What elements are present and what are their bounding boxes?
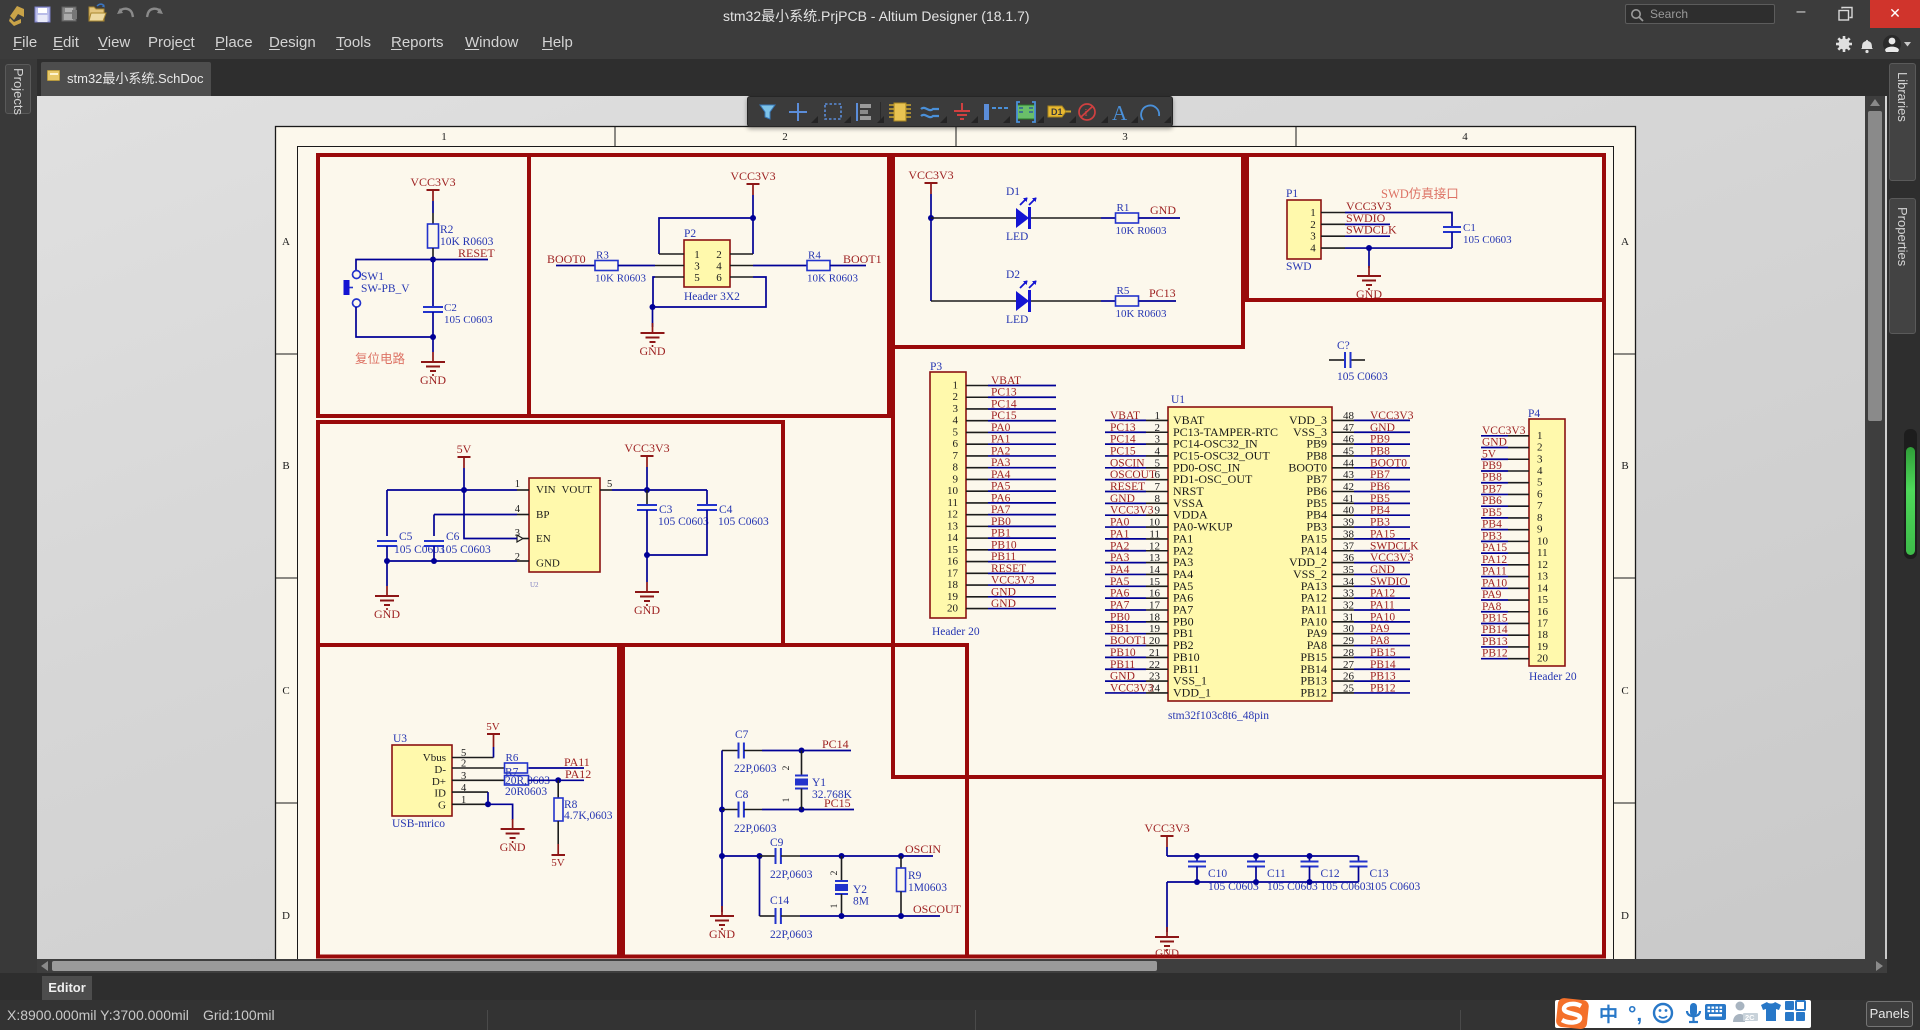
pin U1.15 PA5 — [1146, 585, 1168, 587]
svg-text:105 C0603: 105 C0603 — [658, 516, 709, 528]
wire net 5V — [1481, 458, 1508, 460]
svg-text:PB0: PB0 — [991, 516, 1011, 528]
wire net PB10 — [1105, 656, 1146, 658]
pin U1.32 PA11 — [1332, 609, 1354, 611]
wire — [752, 195, 754, 218]
svg-text:GND: GND — [1155, 948, 1179, 960]
svg-text:4.7K,0603: 4.7K,0603 — [564, 810, 613, 822]
svg-text:C14: C14 — [770, 895, 789, 907]
wire net VBAT — [1105, 419, 1146, 421]
wire net PB11 — [988, 561, 1056, 563]
svg-text:R2: R2 — [440, 224, 454, 236]
junction — [799, 807, 805, 813]
wire net GND — [1481, 447, 1508, 449]
pin P3.15 — [966, 549, 988, 551]
svg-text:C10: C10 — [1208, 868, 1227, 880]
svg-text:RESET: RESET — [1110, 481, 1145, 493]
svg-text:SWD: SWD — [1286, 261, 1312, 273]
wire — [931, 217, 1016, 219]
wire net SWDCLK — [1354, 550, 1410, 552]
svg-text:R9: R9 — [908, 870, 922, 882]
editor tab bar — [0, 973, 1920, 1000]
svg-text:46: 46 — [1343, 434, 1355, 446]
wire net PA1 — [988, 443, 1056, 445]
wire net PA6 — [1105, 597, 1146, 599]
svg-text:SWDCLK: SWDCLK — [1346, 223, 1397, 237]
wire net PA9 — [1354, 633, 1410, 635]
wire net OSCIN — [1105, 467, 1146, 469]
pin U1.45 PB8 — [1332, 455, 1354, 457]
redo icon — [147, 9, 161, 17]
svg-text:5: 5 — [953, 426, 959, 438]
pin P1.1 — [1321, 212, 1345, 214]
svg-text:2: 2 — [716, 249, 722, 261]
svg-text:VCC3V3: VCC3V3 — [1144, 821, 1189, 835]
resistor R8 — [557, 780, 559, 798]
svg-text:R4: R4 — [808, 250, 821, 262]
svg-text:PA8: PA8 — [1370, 635, 1390, 647]
wire — [1345, 235, 1390, 237]
svg-text:PB12: PB12 — [1370, 682, 1396, 694]
svg-text:VCC3V3: VCC3V3 — [624, 441, 669, 455]
svg-text:PA5: PA5 — [1110, 576, 1130, 588]
wire — [930, 218, 932, 301]
svg-text:5: 5 — [694, 272, 700, 284]
wire — [1166, 847, 1168, 856]
svg-text:9: 9 — [953, 473, 959, 485]
pin U1.25 PB12 — [1332, 692, 1354, 694]
svg-text:U3: U3 — [393, 733, 407, 745]
wire — [1166, 882, 1168, 932]
svg-text:Vbus: Vbus — [423, 752, 446, 764]
svg-text:PA12: PA12 — [1482, 554, 1507, 566]
svg-text:28: 28 — [1343, 647, 1355, 659]
window title bar — [0, 0, 1920, 28]
svg-text:PA12: PA12 — [1370, 588, 1395, 600]
wire net PC13 — [988, 396, 1056, 398]
wire — [1101, 217, 1116, 219]
svg-text:48: 48 — [1343, 410, 1355, 422]
svg-text:GND: GND — [991, 586, 1016, 598]
svg-text:PA15: PA15 — [1482, 542, 1507, 554]
capacitor C3 — [646, 490, 648, 505]
pin P4.18 — [1508, 634, 1529, 636]
capacitor — [738, 802, 740, 818]
svg-text:5V: 5V — [457, 442, 472, 456]
svg-text:LED: LED — [1006, 231, 1028, 243]
svg-text:Y2: Y2 — [853, 884, 867, 896]
svg-text:PB0: PB0 — [1110, 611, 1130, 623]
svg-text:GND: GND — [1370, 422, 1395, 434]
wire — [762, 809, 802, 811]
wire net PB8 — [1354, 455, 1410, 457]
wire net PC15 — [1105, 455, 1146, 457]
pin U1.20 PB2 — [1146, 645, 1168, 647]
junction — [719, 853, 725, 859]
pin U1.21 PB10 — [1146, 656, 1168, 658]
wire net PB3 — [1354, 526, 1410, 528]
svg-text:1: 1 — [1537, 430, 1543, 442]
svg-text:33: 33 — [1343, 588, 1355, 600]
svg-text:44: 44 — [1343, 457, 1355, 469]
pin U3.1 — [452, 803, 488, 805]
pin P3.11 — [966, 502, 988, 504]
junction — [1253, 853, 1259, 859]
svg-text:VCC3V3: VCC3V3 — [1110, 682, 1154, 694]
svg-text:OSCOUT: OSCOUT — [913, 902, 962, 916]
svg-text:VDD_1: VDD_1 — [1173, 685, 1211, 699]
pin U2.1 — [517, 489, 529, 491]
wire net PA8 — [1354, 645, 1410, 647]
wire — [1031, 300, 1101, 302]
svg-text:45: 45 — [1343, 445, 1355, 457]
svg-text:U1: U1 — [1171, 394, 1185, 406]
svg-text:VBAT: VBAT — [1110, 410, 1140, 422]
svg-text:D+: D+ — [432, 776, 446, 788]
wire net PA11 — [1481, 576, 1508, 578]
gear icon — [1836, 36, 1852, 52]
svg-text:18: 18 — [1149, 611, 1161, 623]
vertical scrollbar — [1865, 96, 1885, 959]
svg-text:43: 43 — [1343, 469, 1355, 481]
svg-text:PB12: PB12 — [1482, 648, 1508, 660]
wire net VCC3V3 — [1105, 692, 1146, 694]
svg-text:VBAT: VBAT — [991, 375, 1021, 387]
pin U1.36 VDD_2 — [1332, 562, 1354, 564]
svg-text:GND: GND — [1110, 493, 1135, 505]
pin P4.7 — [1508, 505, 1529, 507]
svg-text:5: 5 — [1537, 477, 1543, 489]
resistor R4 — [807, 261, 830, 271]
svg-text:D2: D2 — [1006, 269, 1020, 281]
svg-text:1: 1 — [1310, 207, 1316, 219]
wire net PB15 — [1481, 622, 1508, 624]
section box: MCU — [893, 298, 1604, 777]
pin P2.1 — [659, 253, 684, 255]
svg-text:14: 14 — [947, 532, 959, 544]
wire — [434, 514, 517, 516]
svg-text:GND: GND — [420, 373, 446, 387]
junction — [1307, 879, 1313, 885]
wire — [432, 248, 434, 260]
svg-text:PB14: PB14 — [1482, 624, 1508, 636]
wire net PC15 — [988, 420, 1056, 422]
svg-text:13: 13 — [1149, 552, 1161, 564]
wire net VBAT — [988, 385, 1056, 387]
open folder icon — [89, 4, 106, 21]
wire — [652, 307, 654, 327]
svg-text:D: D — [282, 910, 290, 922]
junction — [485, 801, 491, 807]
pin P3.10 — [966, 490, 988, 492]
svg-text:PA6: PA6 — [991, 492, 1011, 504]
wire net PB6 — [1481, 505, 1508, 507]
svg-text:7: 7 — [1155, 481, 1161, 493]
pin P3.19 — [966, 596, 988, 598]
svg-text:SWD仿真接口: SWD仿真接口 — [1381, 186, 1459, 201]
pin U1.10 PA0-WKUP — [1146, 526, 1168, 528]
svg-text:SW-PB_V: SW-PB_V — [361, 283, 410, 295]
pin U1.34 PA13 — [1332, 585, 1354, 587]
wire — [1345, 213, 1452, 228]
wire — [493, 747, 495, 758]
wire net PA12 — [1481, 564, 1508, 566]
svg-text:D1: D1 — [1006, 186, 1020, 198]
svg-text:PA11: PA11 — [1482, 566, 1507, 578]
svg-text:4: 4 — [1537, 465, 1543, 477]
wire net PA15 — [1354, 538, 1410, 540]
right panel strip — [1887, 59, 1920, 973]
junction — [1194, 853, 1200, 859]
svg-text:PB12: PB12 — [1300, 685, 1327, 699]
svg-text:C2: C2 — [444, 302, 457, 314]
svg-text:R5: R5 — [1117, 285, 1130, 297]
svg-text:20: 20 — [1537, 653, 1549, 665]
svg-text:41: 41 — [1343, 493, 1354, 505]
svg-text:16: 16 — [1149, 588, 1161, 600]
resistor R3 — [595, 261, 618, 271]
pin U2.2 — [517, 560, 529, 562]
svg-text:47: 47 — [1343, 422, 1355, 434]
svg-text:20: 20 — [1149, 635, 1161, 647]
wire net VCC3V3 — [1105, 514, 1146, 516]
wire net PA10 — [1481, 587, 1508, 589]
svg-text:1M0603: 1M0603 — [908, 882, 947, 894]
dropdown corner triangles — [811, 116, 1171, 123]
svg-text:VCC3V3: VCC3V3 — [730, 169, 775, 183]
wire — [1345, 223, 1390, 225]
wire — [618, 265, 655, 267]
svg-text:BOOT0: BOOT0 — [547, 252, 586, 266]
svg-text:PB9: PB9 — [1482, 460, 1502, 472]
svg-text:A: A — [1621, 236, 1629, 248]
pin U1.24 VDD_1 — [1146, 692, 1168, 694]
power port GND — [646, 582, 648, 592]
svg-text:GND: GND — [500, 840, 526, 854]
svg-text:PB10: PB10 — [1110, 647, 1136, 659]
pin U1.6 PD1-OSC_OUT — [1146, 479, 1168, 481]
wire — [722, 855, 760, 857]
svg-text:105 C0603: 105 C0603 — [444, 314, 493, 326]
svg-text:D1: D1 — [1051, 107, 1063, 117]
section box: crystals — [623, 645, 967, 957]
capacitor — [775, 848, 777, 864]
wire net VCC3V3 — [988, 584, 1056, 586]
svg-text:PB9: PB9 — [1370, 434, 1390, 446]
junction — [644, 487, 650, 493]
svg-text:OSCIN: OSCIN — [1110, 457, 1145, 469]
svg-text:ID: ID — [434, 788, 446, 800]
wire — [800, 855, 933, 857]
svg-text:8: 8 — [1155, 493, 1161, 505]
wire net PB12 — [1354, 692, 1410, 694]
svg-text:C4: C4 — [719, 504, 733, 516]
wire net PB0 — [988, 525, 1056, 527]
svg-text:PA15: PA15 — [1370, 528, 1395, 540]
wire net GND — [988, 596, 1056, 598]
svg-text:BP: BP — [536, 509, 549, 521]
svg-text:105 C0603: 105 C0603 — [1321, 881, 1372, 893]
svg-text:2: 2 — [953, 391, 959, 403]
svg-text:PA8: PA8 — [1482, 601, 1502, 613]
wire net GND — [1354, 573, 1410, 575]
wire net PA10 — [1354, 621, 1410, 623]
wire — [1451, 232, 1453, 248]
svg-text:10: 10 — [1537, 535, 1549, 547]
capacitor C11 — [1255, 856, 1257, 862]
wire net VCC3V3 — [1354, 419, 1410, 421]
pin P4.17 — [1508, 622, 1529, 624]
junction — [461, 487, 467, 493]
svg-text:C: C — [1621, 685, 1628, 697]
switch SW1 — [353, 271, 361, 279]
pin P4.2 — [1508, 447, 1529, 449]
svg-text:17: 17 — [1149, 600, 1161, 612]
svg-text:105 C0603: 105 C0603 — [1337, 371, 1388, 383]
wire — [463, 468, 465, 490]
svg-text:12: 12 — [947, 509, 958, 521]
pin P2.2 — [730, 253, 753, 255]
svg-text:19: 19 — [1149, 623, 1161, 635]
svg-text:3: 3 — [1310, 231, 1316, 243]
svg-text:22: 22 — [1149, 659, 1160, 671]
svg-text:PB7: PB7 — [1370, 469, 1390, 481]
svg-text:39: 39 — [1343, 517, 1355, 529]
svg-text:PA11: PA11 — [1370, 600, 1395, 612]
resistor R1 — [1116, 213, 1139, 223]
svg-text:PC15: PC15 — [1110, 445, 1136, 457]
junction — [757, 853, 763, 859]
menu bar — [0, 28, 1920, 59]
pin U1.14 PA4 — [1146, 573, 1168, 575]
svg-text:PB5: PB5 — [1370, 493, 1390, 505]
power port GND — [652, 323, 654, 333]
user icon — [1883, 35, 1901, 53]
power port GND — [512, 819, 514, 829]
pin P4.3 — [1508, 458, 1529, 460]
capacitor C10 — [1196, 856, 1198, 862]
svg-text:4: 4 — [1462, 131, 1468, 143]
svg-text:Header 20: Header 20 — [932, 626, 980, 638]
svg-text:PC13: PC13 — [1110, 422, 1136, 434]
svg-text:13: 13 — [947, 520, 959, 532]
wire — [1345, 247, 1452, 249]
svg-text:VCC3V3: VCC3V3 — [410, 175, 455, 189]
power port 5V — [458, 456, 471, 458]
wire net PA0 — [988, 431, 1056, 433]
power port VCC3V3 — [925, 182, 938, 184]
svg-text:SWDCLK: SWDCLK — [1370, 540, 1419, 552]
section box: reset circuit — [318, 155, 529, 416]
svg-text:19: 19 — [1537, 641, 1549, 653]
wire — [653, 277, 655, 307]
wire net PA4 — [1105, 573, 1146, 575]
wire net RESET — [1105, 491, 1146, 493]
svg-text:C7: C7 — [735, 729, 749, 741]
wire — [356, 260, 433, 271]
pin U1.39 PB3 — [1332, 526, 1354, 528]
svg-text:PA7: PA7 — [991, 504, 1011, 516]
power port GND — [432, 352, 434, 362]
pin P4.8 — [1508, 517, 1529, 519]
svg-text:4: 4 — [1310, 243, 1316, 255]
pin U1.16 PA6 — [1146, 597, 1168, 599]
svg-text:6: 6 — [716, 272, 722, 284]
wire net PB3 — [1481, 540, 1508, 542]
svg-text:C: C — [282, 685, 289, 697]
pin P2.6 — [730, 276, 753, 278]
svg-text:Header 20: Header 20 — [1529, 671, 1577, 683]
pin P4.14 — [1508, 587, 1529, 589]
svg-text:22P,0603: 22P,0603 — [734, 823, 777, 835]
svg-text:BOOT0: BOOT0 — [1370, 457, 1407, 469]
svg-text:2: 2 — [830, 870, 840, 875]
svg-text:22P,0603: 22P,0603 — [770, 929, 813, 941]
wire net PB13 — [1481, 646, 1508, 648]
svg-text:PB14: PB14 — [1370, 659, 1396, 671]
svg-text:PC13: PC13 — [991, 387, 1017, 399]
svg-text:OSCIN: OSCIN — [905, 842, 941, 856]
resistor R6 — [505, 763, 528, 773]
wire — [653, 277, 766, 307]
svg-text:VCC3V3: VCC3V3 — [1110, 505, 1154, 517]
section box: LED indicators — [893, 155, 1243, 347]
wire — [830, 265, 866, 267]
svg-text:B: B — [282, 460, 289, 472]
save icon — [35, 7, 50, 22]
svg-text:5V: 5V — [551, 857, 565, 869]
pin U1.48 VDD_3 — [1332, 419, 1354, 421]
svg-text:PA3: PA3 — [991, 457, 1011, 469]
svg-text:1: 1 — [830, 903, 840, 908]
svg-text:PA5: PA5 — [991, 481, 1011, 493]
pin P3.7 — [966, 455, 988, 457]
pin U1.23 VSS_1 — [1146, 680, 1168, 682]
pin P3.1 — [966, 385, 988, 387]
svg-text:C11: C11 — [1267, 868, 1286, 880]
svg-text:C3: C3 — [659, 504, 673, 516]
wire — [646, 555, 648, 582]
svg-text:2: 2 — [782, 131, 788, 143]
wire net GND — [1105, 680, 1146, 682]
junction — [431, 558, 437, 564]
svg-text:1: 1 — [441, 131, 447, 143]
svg-text:中: 中 — [1599, 1003, 1618, 1026]
junction — [384, 558, 390, 564]
pin U2.5 — [600, 489, 612, 491]
svg-text:PA0: PA0 — [991, 422, 1011, 434]
svg-text:P1: P1 — [1286, 188, 1298, 200]
wire — [556, 265, 595, 267]
pin U1.41 PB5 — [1332, 502, 1354, 504]
junction — [898, 913, 904, 919]
sheet border frame — [276, 127, 1636, 967]
wire net PA5 — [1105, 585, 1146, 587]
pin U1.13 PA3 — [1146, 562, 1168, 564]
wire — [931, 300, 1016, 302]
pin U3.2 — [452, 767, 504, 769]
svg-text:29: 29 — [1343, 635, 1355, 647]
svg-text:5: 5 — [607, 479, 612, 490]
pin P3.3 — [966, 408, 988, 410]
sheet background — [275, 126, 1636, 959]
wire net PB7 — [1354, 479, 1410, 481]
wire net PA11 — [1354, 609, 1410, 611]
svg-text:PB3: PB3 — [1370, 517, 1390, 529]
svg-text:GND: GND — [1110, 671, 1135, 683]
svg-text:3: 3 — [1537, 453, 1543, 465]
pin U1.31 PA10 — [1332, 621, 1354, 623]
